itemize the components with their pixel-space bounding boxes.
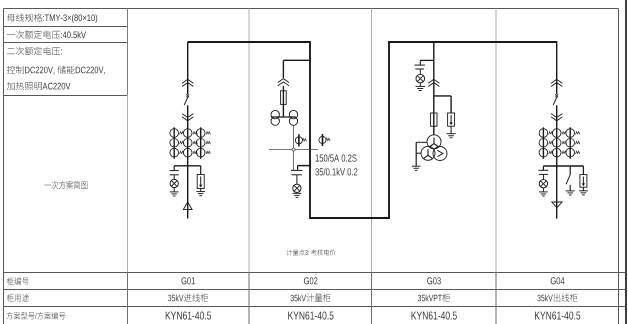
surge arrester F G04 <box>580 175 587 191</box>
G02 secondary wire down from TV2 <box>293 125 295 170</box>
surge arrester F G03 <box>448 113 455 134</box>
G03 tap wire from bus <box>433 42 435 135</box>
label primary rated voltage <box>7 30 86 38</box>
G04 drawout contact lower (chevrons) <box>551 114 562 121</box>
G04 use <box>537 293 577 302</box>
model KYN61-40.5 col 310.7 <box>288 312 333 320</box>
PT ratio label <box>315 168 357 176</box>
G03 live display branch <box>420 60 434 65</box>
voltage transformer TV1 G02 (two circles) <box>271 110 279 125</box>
table: bottom row lines <box>4 273 627 307</box>
circuit breaker QF G01 (x + blade) <box>184 94 189 105</box>
model KYN61-40.5 col 434.0 <box>412 312 457 320</box>
fuse FU G02 <box>281 91 287 105</box>
model KYN61-40.5 col 557.5 <box>535 312 580 320</box>
ground under G01 arrester <box>196 192 205 196</box>
voltage transformer TV2 G02 (two circles) <box>289 110 297 125</box>
cable terminal G01 (incoming, triangle up) <box>183 202 192 210</box>
busbar section 2 (G03 area to G04 drop) <box>389 41 557 43</box>
label cabinet no. <box>7 277 29 285</box>
label cabinet use <box>7 294 29 302</box>
G01 feeder main wire lower <box>187 105 189 218</box>
table: column divider x=127 <box>127 9 129 324</box>
G04 drawout contact upper (chevrons) <box>551 79 562 86</box>
G03 arrester branch tee <box>434 96 451 113</box>
live-line display device G01 (capacitor + lamp) <box>170 171 179 192</box>
ground under G02 live display <box>293 193 302 197</box>
fuse FU G03 <box>431 113 437 126</box>
metering point note <box>287 249 336 255</box>
G01 drawout contact upper (chevrons) <box>182 79 193 86</box>
live-line display device G03 <box>415 65 425 86</box>
G02 drawout contact (chevrons) <box>278 79 289 86</box>
table: light column dividers between panels <box>249 9 496 324</box>
voltage transformer TV G03 (trefoil, 3 windings) <box>421 135 447 161</box>
node on G02 secondary wire <box>292 148 295 151</box>
sheet frame line right <box>625 0 627 324</box>
cabinet G02 id <box>304 277 318 284</box>
cabinet G03 id <box>427 277 441 284</box>
G01 drawout contact lower (chevrons) <box>182 114 193 121</box>
PT primary bar G02 <box>271 116 296 118</box>
current transformers TA G01 (3x3) <box>170 127 211 159</box>
model KYN61-40.5 col 188.2 <box>166 312 211 320</box>
G02 wire to fuse <box>282 86 284 117</box>
G03 PT neutral grounding wires <box>416 142 427 166</box>
cable terminal G04 (outgoing, triangle down) <box>552 202 562 208</box>
G01 branch tee <box>174 166 201 175</box>
current transformer TA G02 on secondary <box>295 134 306 146</box>
circuit breaker QF G04 (x + blade) <box>553 94 558 105</box>
G01 use <box>168 293 208 302</box>
earthing switch G04 <box>566 175 570 191</box>
bus jumper down/across/up through G02 panel <box>310 41 389 218</box>
label heater voltage <box>7 82 71 90</box>
label busbar spec <box>7 14 97 23</box>
G03 drawout contact (chevrons) <box>428 79 439 86</box>
cabinet G01 id <box>181 277 195 284</box>
label scheme model/no. <box>6 312 65 319</box>
G02 use <box>291 293 331 302</box>
ground under G01 live display <box>170 192 179 196</box>
label secondary rated voltage <box>7 47 62 55</box>
busbar section 1 (G01 to G02 drop) <box>188 41 310 43</box>
G04 feeder main wire lower <box>556 105 558 218</box>
ground under G04 earthing switch <box>566 191 575 195</box>
surge arrester F G01 <box>197 175 204 192</box>
ground under G04 arrester <box>579 191 588 195</box>
G01 feeder main wire upper <box>187 42 189 94</box>
G04 feeder main wire upper <box>556 41 558 94</box>
table: header column row lines <box>4 27 128 96</box>
current transformers TA G04 (3x3) <box>539 127 580 159</box>
G03 use <box>418 293 450 302</box>
G02 secondary horizontal wire <box>269 149 318 151</box>
cabinet G04 id <box>551 277 565 284</box>
G02 live display branch from bus drop <box>298 166 310 171</box>
live-line display device G02 <box>291 170 303 193</box>
G04 branch tee <box>543 166 583 175</box>
G02 tap wire from bus drop <box>283 60 310 78</box>
ground under G03 PT neutral <box>412 166 421 170</box>
legend CT symbol with ratio <box>319 134 330 146</box>
label control/storage voltage <box>7 66 105 75</box>
ground under G03 arrester <box>447 134 456 138</box>
CT ratio label <box>316 154 357 162</box>
live-line display device G04 <box>538 170 548 192</box>
label primary scheme diagram <box>44 181 87 189</box>
ground under G03 live display <box>416 86 426 90</box>
ground under G04 live display <box>539 192 548 196</box>
